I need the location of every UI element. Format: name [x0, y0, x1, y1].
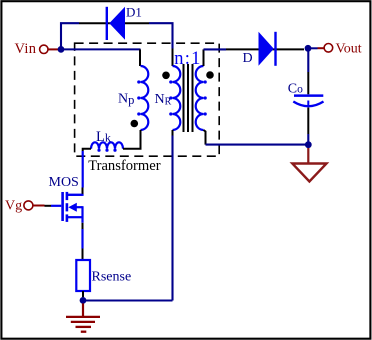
node ground left — [80, 297, 87, 304]
wire Vin to Np top — [58, 49, 141, 66]
polarity dot Np — [131, 120, 139, 128]
svg-text:Vin: Vin — [15, 41, 37, 57]
polarity dot NR — [162, 72, 170, 80]
svg-text:Vout: Vout — [336, 42, 362, 57]
wire bottom run to NR — [83, 130, 173, 301]
transistor MOS — [49, 175, 83, 223]
polarity dot secondary — [206, 71, 214, 79]
svg-text:Np: Np — [118, 92, 134, 108]
transformer T1 dashed outline — [75, 43, 220, 156]
ground right — [292, 148, 326, 182]
node junction at Vin — [58, 46, 65, 53]
wire MOS source to Rsense — [82, 223, 84, 260]
diode D1 — [107, 5, 142, 41]
label Transformer — [88, 158, 161, 174]
winding secondary — [196, 66, 207, 130]
wire Np bottom to Lk — [123, 130, 141, 149]
svg-text:Transformer: Transformer — [88, 158, 161, 174]
node output bottom — [305, 141, 312, 148]
transformer core — [184, 64, 193, 132]
svg-text:Lk: Lk — [96, 129, 111, 145]
wire Lk to MOS drain — [68, 149, 91, 195]
winding NR — [155, 66, 181, 130]
capacitor Co — [288, 82, 324, 108]
diode D — [243, 32, 276, 66]
wire secondary bottom — [204, 130, 309, 145]
wire D1 clamp loop — [61, 23, 173, 66]
inductor Lk — [91, 129, 123, 152]
svg-text:Rsense: Rsense — [92, 270, 132, 285]
wire gate — [45, 205, 62, 207]
winding Np — [118, 66, 148, 130]
svg-text:D1: D1 — [126, 5, 142, 20]
svg-text:NR: NR — [155, 92, 172, 108]
svg-text:MOS: MOS — [49, 175, 79, 190]
terminal Vg — [5, 199, 45, 214]
wire Co to bottom node — [307, 108, 309, 145]
node output top — [305, 45, 312, 52]
svg-text:Co: Co — [288, 82, 303, 97]
svg-text:Vg: Vg — [5, 199, 22, 214]
terminal Vin — [15, 41, 59, 57]
wire output node to Co — [307, 48, 309, 94]
ground left — [66, 303, 100, 331]
wire secondary top to diode D — [204, 49, 305, 66]
svg-text:D: D — [243, 51, 253, 66]
terminal Vout — [311, 42, 362, 57]
wire Rsense to ground node — [82, 291, 84, 297]
resistor Rsense — [76, 260, 131, 291]
svg-text:n:1: n:1 — [174, 49, 201, 69]
